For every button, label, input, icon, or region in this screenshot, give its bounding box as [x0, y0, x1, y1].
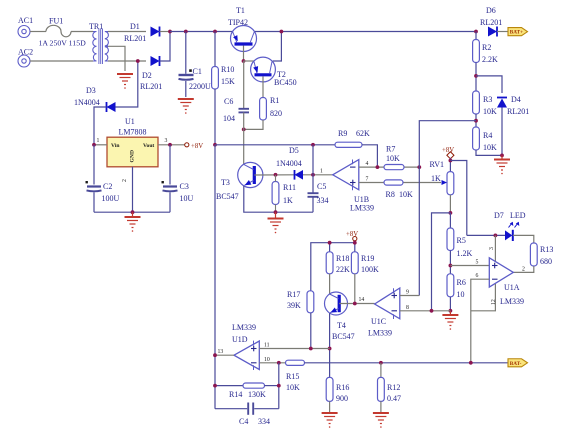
- node R14 right: [277, 384, 281, 388]
- wire T3 base to R11/D5: [254, 174, 294, 176]
- connector tag BAT+: [508, 28, 528, 36]
- svg-text:2: 2: [522, 267, 525, 273]
- svg-text:1: 1: [97, 138, 100, 144]
- svg-text:R4: R4: [483, 131, 492, 140]
- svg-text:C5: C5: [317, 182, 326, 191]
- svg-text:100K: 100K: [361, 265, 379, 274]
- svg-text:C1: C1: [193, 67, 202, 76]
- ground at R12: [373, 413, 389, 428]
- svg-text:R7: R7: [386, 145, 395, 154]
- svg-text:BC547: BC547: [216, 192, 239, 201]
- svg-text:2200U: 2200U: [189, 82, 211, 91]
- wire U1A pin6 route: [471, 279, 490, 363]
- wire U1D pin10 line to R15: [259, 362, 285, 364]
- svg-text:RL201: RL201: [507, 107, 529, 116]
- wire R3/R4 junction to comparator net: [419, 121, 476, 167]
- svg-text:U1C: U1C: [371, 317, 386, 326]
- wire D4 down to ground node: [501, 108, 503, 156]
- wire R9 right then down to U1B pin4: [362, 145, 377, 167]
- resistor R14 130K: [215, 385, 243, 387]
- wire secondary top tap to D1: [108, 31, 146, 33]
- terminal AC2: [18, 55, 30, 67]
- node R11 top: [274, 173, 278, 177]
- transformer TR1 secondary winding: [105, 32, 109, 62]
- svg-text:10K: 10K: [483, 143, 497, 152]
- svg-text:RL201: RL201: [480, 18, 502, 27]
- wire T2 collector up to rail: [273, 32, 282, 62]
- ground at C1: [178, 99, 194, 114]
- node ground bus at R11: [274, 210, 278, 214]
- capacitor C3 10U: [169, 145, 171, 185]
- transformer TR1 primary winding: [93, 32, 97, 62]
- wire D7 cathode to R13: [513, 235, 534, 243]
- node T1 base / T2 emitter: [242, 59, 246, 63]
- svg-text:T4: T4: [337, 321, 346, 330]
- resistor R11 1K: [272, 182, 279, 205]
- node T4 base / R19: [353, 302, 357, 306]
- wire C6 node down to T3 collector (crosses +8V rail): [243, 112, 245, 164]
- svg-text:BAT-: BAT-: [510, 361, 522, 367]
- svg-text:R10: R10: [221, 65, 234, 74]
- svg-text:R12: R12: [387, 383, 400, 392]
- node D4/R4 ground: [500, 154, 504, 158]
- node R3/R4 junction: [474, 119, 478, 123]
- node pin6/12 drop at BAT- rail: [469, 361, 473, 365]
- wire U1C pin8 to R6 bottom: [400, 310, 451, 312]
- resistor R12 0.47: [379, 361, 383, 365]
- svg-text:R19: R19: [361, 254, 374, 263]
- node T2 collector at rail: [280, 30, 284, 34]
- svg-text:R18: R18: [336, 254, 349, 263]
- node D7 / U1A pin3: [494, 234, 498, 238]
- svg-text:5: 5: [476, 260, 479, 266]
- node top rail at R2: [474, 30, 478, 34]
- svg-text:3: 3: [489, 247, 495, 250]
- svg-text:R15: R15: [286, 372, 299, 381]
- wire node to U1C pin8 riser: [432, 213, 451, 311]
- svg-text:2: 2: [122, 179, 128, 182]
- svg-text:1K: 1K: [283, 196, 293, 205]
- svg-text:334: 334: [317, 196, 329, 205]
- capacitor C5 334: [312, 175, 314, 193]
- wire D3 cathode to U1 input: [94, 107, 107, 145]
- wire AC1 to fuse: [30, 31, 46, 33]
- wire D5 anode to U1B output: [303, 174, 333, 176]
- wire secondary center tap: [108, 46, 125, 71]
- svg-text:104: 104: [223, 114, 235, 123]
- ground at transformer center tap: [117, 74, 133, 89]
- connector tag BAT-: [508, 359, 528, 367]
- svg-text:D5: D5: [289, 146, 299, 155]
- wire AC2 to transformer primary: [30, 60, 93, 62]
- svg-text:D1: D1: [130, 22, 140, 31]
- wire RV1 bottom to node: [449, 195, 451, 213]
- svg-text:C3: C3: [180, 182, 189, 191]
- svg-text:R17: R17: [287, 290, 300, 299]
- wire U1 pin2 down: [132, 167, 134, 212]
- wire U1C pin9 to comparator net: [400, 295, 420, 297]
- svg-text:LED: LED: [510, 211, 526, 220]
- resistor R15 10K: [286, 360, 305, 365]
- wire T4 emitter down: [329, 313, 331, 377]
- wire U1 pin3 to +8V tap: [158, 144, 185, 146]
- svg-text:R6: R6: [457, 278, 466, 287]
- wire top rail: [170, 31, 476, 33]
- node R14 riser at pin10 line: [277, 361, 281, 365]
- svg-text:15K: 15K: [221, 77, 235, 86]
- svg-text:U1: U1: [125, 117, 135, 126]
- svg-text:62K: 62K: [356, 129, 370, 138]
- svg-text:C4: C4: [239, 417, 248, 426]
- resistor R4 10K: [473, 127, 480, 150]
- capacitor C1 2200U: [184, 30, 188, 34]
- wire U1B pin7 line to RV1 wiper: [359, 182, 441, 184]
- svg-text:D6: D6: [486, 6, 496, 15]
- wire R4 bottom to D4 ground node: [476, 150, 502, 155]
- capacitor C6 104: [243, 61, 245, 108]
- svg-text:T3: T3: [221, 178, 230, 187]
- resistor R10 15K: [213, 30, 217, 34]
- wire vertical net x=419 down to U1C pin9: [418, 167, 420, 295]
- svg-text:10K: 10K: [386, 154, 400, 163]
- svg-text:FU1: FU1: [49, 17, 63, 26]
- svg-text:R8: R8: [386, 190, 395, 199]
- fuse FU1: [46, 25, 71, 36]
- svg-text:1: 1: [320, 169, 323, 175]
- svg-text:1N4004: 1N4004: [276, 159, 302, 168]
- svg-text:39K: 39K: [287, 301, 301, 310]
- svg-text:R1: R1: [270, 96, 279, 105]
- wire R19 bottom to T4 base node: [354, 274, 356, 304]
- svg-text:U1D: U1D: [232, 335, 248, 344]
- svg-text:C2: C2: [103, 182, 112, 191]
- svg-text:RL201: RL201: [124, 34, 146, 43]
- resistor R19 100K: [351, 252, 358, 274]
- svg-text:LM339: LM339: [368, 329, 392, 338]
- svg-text:4: 4: [366, 161, 369, 167]
- svg-text:334: 334: [258, 417, 270, 426]
- wire T1 base down: [243, 46, 245, 62]
- wire U1 pin1: [94, 144, 107, 146]
- wire D6 to BAT+: [497, 31, 508, 33]
- wire net from R10 node down left side: [214, 145, 216, 409]
- svg-text:1A 250V 115D: 1A 250V 115D: [39, 39, 87, 48]
- wire T3 emitter down and across to ground bus: [244, 186, 313, 212]
- wire C5 node riser to +8V rail: [312, 145, 314, 175]
- node pin8 riser junction: [430, 309, 434, 313]
- resistor R3 10K: [473, 91, 480, 114]
- wire RV1 top node to D7 feed: [450, 161, 466, 236]
- ground at R4/D4: [494, 155, 510, 174]
- resistor R18 22K: [326, 252, 333, 274]
- resistor R1 820: [260, 98, 267, 121]
- wire R14 right to pin10 riser: [265, 385, 279, 387]
- node D2 anode: [136, 59, 140, 63]
- wire T1 base to T2: [244, 60, 255, 62]
- terminal AC1: [18, 26, 30, 38]
- svg-text:BC450: BC450: [274, 78, 297, 87]
- wire R13 bottom to U1A output: [513, 266, 534, 272]
- node R14 left: [213, 384, 217, 388]
- svg-text:12: 12: [491, 299, 497, 305]
- transformer TR1 core: [99, 29, 103, 65]
- svg-text:1.2K: 1.2K: [457, 249, 473, 258]
- node pin4 line right end: [417, 165, 421, 169]
- svg-text:R5: R5: [457, 236, 466, 245]
- resistor R2 2.2K: [475, 32, 477, 40]
- wire U1D pin11 line: [259, 348, 329, 350]
- capacitor C2 100U: [93, 145, 95, 185]
- svg-text:680: 680: [540, 257, 552, 266]
- wire T4 base to U1C output: [339, 303, 374, 305]
- wire R17 bottom to U1D pin11 line: [310, 313, 312, 349]
- svg-text:D2: D2: [142, 71, 152, 80]
- wire U1A pin3 down into triangle: [494, 235, 496, 262]
- resistor R13 680: [530, 243, 537, 266]
- svg-text:130K: 130K: [248, 390, 266, 399]
- svg-text:1N4004: 1N4004: [74, 98, 100, 107]
- wire D2 anode down to D3: [116, 61, 138, 107]
- svg-text:R13: R13: [540, 245, 553, 254]
- svg-text:6: 6: [476, 273, 479, 279]
- svg-text:13: 13: [218, 349, 224, 355]
- wire R2 bottom jog to D4: [476, 76, 502, 93]
- wire R18 bottom to T4 collector: [329, 274, 331, 294]
- wire D7 anode feed: [467, 234, 505, 236]
- node RV1 top: [449, 159, 453, 163]
- power tap +8V at U1 output: [185, 143, 189, 147]
- wire R5/R6 node to U1A pin5: [450, 265, 489, 267]
- node D5 riser at rail: [311, 143, 315, 147]
- svg-text:0.47: 0.47: [387, 394, 401, 403]
- wire D1 cathode to node: [160, 31, 171, 33]
- svg-text:8: 8: [406, 305, 409, 311]
- svg-text:R14: R14: [229, 390, 242, 399]
- svg-text:RV1: RV1: [430, 160, 444, 169]
- svg-text:R11: R11: [283, 183, 296, 192]
- svg-text:R2: R2: [482, 43, 491, 52]
- svg-text:10K: 10K: [286, 383, 300, 392]
- svg-text:10K: 10K: [399, 190, 413, 199]
- svg-text:10K: 10K: [483, 107, 497, 116]
- capacitor C4 334: [215, 408, 247, 410]
- node U1 ground: [131, 210, 135, 214]
- svg-text:900: 900: [336, 394, 348, 403]
- svg-text:14: 14: [359, 297, 365, 303]
- node pin13 at left net: [213, 353, 217, 357]
- wire D2 cathode up to top rail: [160, 32, 171, 62]
- svg-text:7: 7: [366, 177, 369, 183]
- wire U1A pin12 ground route: [471, 284, 496, 311]
- svg-text:Vout: Vout: [143, 143, 154, 149]
- svg-text:+8V: +8V: [442, 147, 454, 154]
- svg-text:R3: R3: [483, 95, 492, 104]
- node R19 top: [353, 241, 357, 245]
- svg-text:U1A: U1A: [504, 283, 520, 292]
- wire U1B pin4 line: [359, 166, 420, 168]
- svg-text:10: 10: [457, 290, 465, 299]
- svg-text:AC1: AC1: [18, 16, 33, 25]
- svg-text:10: 10: [264, 357, 270, 363]
- ground at U1: [125, 212, 141, 232]
- svg-text:100U: 100U: [102, 194, 120, 203]
- svg-text:D3: D3: [86, 86, 96, 95]
- node D5/C5/U1B: [311, 173, 315, 177]
- svg-text:LM339: LM339: [350, 204, 374, 213]
- resistor R16 900: [326, 377, 333, 401]
- node T4 emitter at pin11 line: [328, 347, 332, 351]
- wire fuse to transformer primary: [71, 31, 93, 33]
- ground at R6: [442, 311, 458, 330]
- wire U1D pin13 output: [215, 354, 234, 356]
- node C6 bottom / R1: [242, 127, 246, 131]
- node U1 pin1: [92, 143, 96, 147]
- op-amp U1B LM339: [333, 160, 359, 190]
- svg-text:22K: 22K: [336, 265, 350, 274]
- node R17 at pin11 line: [309, 347, 313, 351]
- wire T2 base down to R1: [262, 76, 264, 97]
- svg-text:C6: C6: [224, 97, 233, 106]
- svg-text:T1: T1: [236, 6, 245, 15]
- svg-text:1K: 1K: [431, 174, 441, 183]
- node R2 bottom: [474, 74, 478, 78]
- node RV1 bottom / R5 top: [449, 211, 453, 215]
- wire +8V to RV1 top: [449, 158, 451, 172]
- svg-text:+8V: +8V: [191, 143, 203, 150]
- svg-text:D4: D4: [511, 95, 521, 104]
- svg-text:9: 9: [406, 290, 409, 296]
- svg-text:LM339: LM339: [500, 297, 524, 306]
- wire ground bus under U1: [94, 211, 170, 213]
- svg-text:11: 11: [264, 343, 270, 349]
- svg-text:GND: GND: [130, 150, 136, 162]
- wire R15 to BAT- rail: [305, 362, 509, 364]
- resistor R8 10K: [384, 180, 403, 185]
- svg-text:BC547: BC547: [332, 332, 355, 341]
- regulator U1 body: [107, 137, 158, 167]
- wire secondary bottom tap to D2: [108, 60, 146, 62]
- svg-text:R16: R16: [336, 383, 349, 392]
- node R18 top: [328, 241, 332, 245]
- svg-text:BAT+: BAT+: [510, 30, 523, 36]
- svg-text:3: 3: [165, 138, 168, 144]
- resistor R6 10: [447, 274, 454, 297]
- ground at T3 emitter bus: [268, 212, 284, 233]
- resistor R5 1.2K: [449, 213, 451, 228]
- svg-text:Vin: Vin: [111, 143, 120, 149]
- node U1 pin3: [168, 143, 172, 147]
- svg-text:AC2: AC2: [18, 48, 33, 57]
- svg-text:LM7808: LM7808: [119, 128, 147, 137]
- svg-text:820: 820: [270, 109, 282, 118]
- ground at R16: [322, 413, 338, 428]
- node R5/R6 junction: [449, 264, 453, 268]
- svg-text:2.2K: 2.2K: [482, 55, 498, 64]
- node R6 bottom / pin8: [449, 309, 453, 313]
- svg-text:D7: D7: [494, 211, 504, 220]
- wire +8V rail to R9: [215, 144, 335, 146]
- node D1/D2 junction: [168, 30, 172, 34]
- svg-text:RL201: RL201: [140, 82, 162, 91]
- svg-text:R9: R9: [338, 129, 347, 138]
- wire +8V distribution to R17/R18/R19: [354, 241, 356, 252]
- node R9 drop at pin4: [376, 165, 380, 169]
- svg-text:LM339: LM339: [232, 323, 256, 332]
- wire R1 bottom to C6 node: [244, 120, 263, 129]
- svg-text:10U: 10U: [180, 194, 194, 203]
- node R10 bottom: [213, 143, 217, 147]
